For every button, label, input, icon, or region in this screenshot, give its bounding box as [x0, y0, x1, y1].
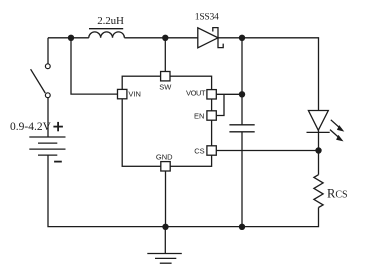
svg-text:VIN: VIN	[128, 89, 141, 98]
svg-text:RCS: RCS	[327, 186, 348, 200]
svg-text:VOUT: VOUT	[186, 89, 206, 98]
svg-text:GND: GND	[156, 153, 173, 162]
svg-text:EN: EN	[194, 112, 204, 121]
svg-text:0.9-4.2V: 0.9-4.2V	[10, 121, 52, 133]
svg-text:2.2uH: 2.2uH	[97, 15, 124, 27]
svg-text:CS: CS	[194, 146, 204, 155]
svg-text:SW: SW	[159, 82, 172, 91]
svg-text:1SS34: 1SS34	[195, 12, 219, 23]
